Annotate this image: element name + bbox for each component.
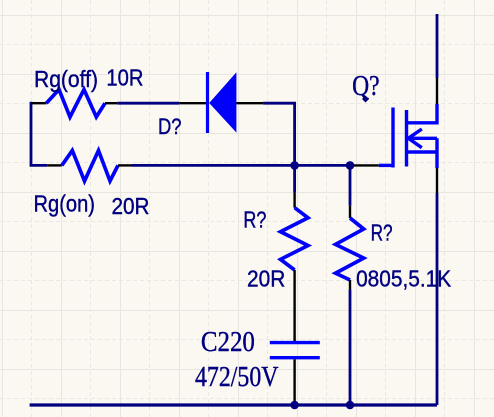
capacitor C220 bottom plate: [270, 356, 320, 359]
wire: top right drain wire: [436, 14, 439, 78]
pin: MOSFET Q? drain pin: [436, 78, 438, 104]
mosfet gate lead: [379, 164, 393, 167]
wire: R? 0805 down to ground rail: [349, 289, 352, 405]
svg-text:20R: 20R: [247, 265, 285, 291]
wire: bottom-left stub to Rg(on): [30, 164, 48, 167]
pin: diode right pin: [236, 102, 263, 104]
wire: Rg(on) to gate node row: [132, 164, 350, 167]
pin: R? 20R bottom pin + capacitor C220 top pin: [293, 270, 295, 342]
wire: right vertical from rail up to MOSFET source: [436, 193, 439, 405]
pin: R? 0805 top pin: [349, 206, 351, 218]
junction node: gate/divider right: [346, 161, 355, 170]
designator diamond marker under Q?: [362, 96, 369, 103]
wire: node down to R? 0805: [349, 165, 352, 205]
pin: Rg(on) left pin: [47, 164, 62, 166]
pin: capacitor C220 bottom pin: [293, 359, 295, 404]
svg-text:D?: D?: [158, 114, 182, 139]
svg-text:R?: R?: [371, 219, 393, 245]
pin: MOSFET Q? source pin: [436, 168, 438, 193]
junction node: 0805 to rail: [346, 401, 355, 410]
mosfet channel bar: [405, 110, 408, 167]
diode D? cathode bar: [206, 72, 209, 133]
resistor R? 20R zigzag: [281, 208, 309, 270]
pin: diode left pin: [179, 102, 206, 104]
pin: Rg(off) left pin: [31, 102, 46, 104]
diode D? triangle: [209, 72, 236, 132]
svg-text:20R: 20R: [112, 193, 150, 219]
wire: node down to R? 20R: [293, 165, 296, 192]
junction node: gate/divider left: [290, 161, 299, 170]
wire: diode to corner and down to node: [263, 103, 295, 165]
pin: MOSFET Q? gate pin: [350, 164, 379, 166]
svg-text:Rg(off): Rg(off): [34, 66, 98, 92]
mosfet source branch: [407, 138, 438, 168]
capacitor C220 top plate: [270, 341, 320, 344]
mosfet drain branch: [407, 104, 438, 123]
svg-text:472/50V: 472/50V: [195, 361, 279, 393]
pin: Rg(on) right pin: [118, 164, 132, 166]
pin: Rg(off) right pin: [105, 102, 117, 104]
junction node: cap to rail: [290, 401, 299, 410]
pin: R? 0805 bottom pin: [349, 280, 351, 289]
mosfet arrowhead: [408, 129, 422, 148]
transistor Q? N-MOSFET body: [379, 104, 437, 168]
svg-text:C220: C220: [201, 326, 255, 358]
svg-text:10R: 10R: [106, 65, 143, 91]
wire: left vertical between Rg(off) and Rg(on) rows: [30, 102, 33, 166]
pin: R? 20R top pin: [293, 193, 295, 208]
resistor R? 0805,5.1K zigzag: [336, 218, 364, 280]
svg-text:Rg(on): Rg(on): [34, 191, 96, 217]
svg-text:R?: R?: [243, 207, 266, 233]
svg-text:0805,5.1K: 0805,5.1K: [356, 266, 452, 292]
wire: ground rail: [30, 403, 437, 406]
wire: Rg(off) to diode: [117, 102, 179, 105]
resistor Rg(on) 20R zigzag: [62, 151, 118, 182]
resistor Rg(off) 10R zigzag: [46, 90, 105, 118]
mosfet gate bar: [391, 108, 394, 168]
mosfet bulk arrow line: [407, 137, 437, 140]
